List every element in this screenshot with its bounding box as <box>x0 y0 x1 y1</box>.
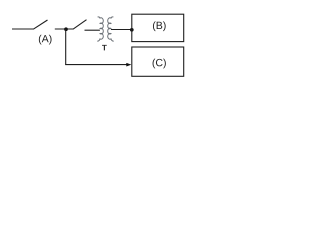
wire: bottom horizontal branch to box C <box>65 64 127 66</box>
label T <box>102 45 107 51</box>
transformer T secondary coil <box>108 17 114 41</box>
wire: vertical branch from junction down <box>65 29 67 65</box>
box (B) <box>132 14 184 41</box>
wire: left lead into switch A <box>12 28 34 30</box>
wire: transformer secondary to box B <box>111 29 132 31</box>
box (C) <box>132 47 184 76</box>
wire: switch 2 contact to transformer primary <box>85 29 100 31</box>
label (B) <box>153 21 166 31</box>
label (C) <box>153 59 166 69</box>
wire: switch A contact to switch 2 pivot <box>55 28 74 30</box>
node: junction dot on box B left edge <box>130 28 134 32</box>
transformer T primary coil <box>97 17 103 41</box>
switch (A) blade (open) <box>33 20 47 29</box>
node: junction dot feeding bottom branch <box>64 27 68 31</box>
switch 2 blade (open) <box>73 20 87 30</box>
label (A) <box>39 35 52 45</box>
arrowhead into box C <box>126 63 131 67</box>
